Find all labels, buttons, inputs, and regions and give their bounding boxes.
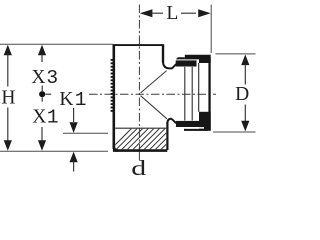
branch tube top wall band (176, 60, 197, 66)
L stem right (181, 12, 196, 14)
node tick down (41, 97, 43, 101)
pipe bottom face (113, 149, 167, 152)
cap bottom-right block (199, 112, 211, 131)
internal cone diagonal upper (141, 71, 167, 93)
K1 arrow down (70, 122, 78, 133)
svg-text:H: H (1, 88, 15, 109)
hatching (bottom section) (108, 126, 190, 152)
D dimension bottom extension line (213, 131, 256, 133)
H dimension arrow down (4, 140, 12, 151)
cap inner vertical line 2 (191, 67, 193, 121)
vertical centerline (pipe axis) (138, 5, 140, 151)
L dimension right extension line (210, 5, 212, 54)
white sliver bottom (cap/tube separation) (185, 127, 204, 129)
cap right outer wall (208, 55, 210, 131)
top barb (thread start) (172, 64, 176, 69)
D arrow down (241, 121, 249, 132)
horizontal centerline (branch axis) (89, 93, 216, 95)
K1 stem (73, 108, 75, 122)
branch bottom wall vertical (166, 122, 168, 150)
bottom arrow stem (73, 162, 75, 172)
L arrow right (198, 9, 211, 17)
D dimension top extension line (216, 53, 256, 55)
bottom extension line (bottom face level) (0, 150, 108, 152)
cap inner face line (198, 63, 200, 112)
H dimension arrow up (4, 45, 12, 56)
D arrow up (241, 55, 249, 66)
H dimension stem bottom (7, 108, 9, 143)
X3 stem (41, 55, 43, 63)
bottom section hatch area top edge (115, 127, 166, 129)
L stem left (151, 12, 163, 14)
svg-text:X3: X3 (31, 67, 58, 89)
bottom-left corner fillet (114, 146, 118, 151)
pipe left wall (113, 44, 116, 149)
bottom barb (172, 119, 176, 123)
K1 reference line (63, 132, 108, 134)
svg-text:L: L (166, 3, 178, 24)
H dimension stem top (7, 55, 9, 87)
branch bottom ledge and fillet (167, 119, 172, 124)
internal cone diagonal lower (141, 96, 167, 119)
cap inner vertical line 1 (184, 67, 186, 121)
D stem bottom (244, 105, 246, 122)
branch tube bottom wall band (176, 121, 199, 127)
L arrow left (140, 9, 153, 17)
cap nut top band (185, 55, 211, 63)
X3 dimension arrow up (38, 45, 46, 56)
pipe top face (113, 44, 164, 46)
top extension line (H/X3 reference, top face level) (0, 43, 113, 45)
svg-text:X1: X1 (32, 107, 58, 129)
X3 lower stem to node (41, 86, 43, 92)
svg-text:d: d (131, 156, 146, 176)
svg-text:D: D (235, 84, 249, 105)
cap skirt top-left piece (176, 57, 185, 59)
svg-text:K1: K1 (59, 89, 86, 111)
node point (axis reference dot) (39, 91, 45, 97)
pipe right wall (above branch) (162, 44, 164, 62)
X1 arrow down (38, 140, 46, 151)
X1 stem (41, 127, 43, 142)
cap skirt bottom edge (184, 129, 208, 131)
bottom up arrow (K1 counter arrow) (70, 152, 78, 163)
D stem top (244, 64, 246, 84)
node tick right (46, 93, 52, 95)
left wall serration (111, 59, 113, 112)
d leader line (138, 151, 140, 161)
right wall to branch-top fillet and ledge (163, 61, 172, 68)
